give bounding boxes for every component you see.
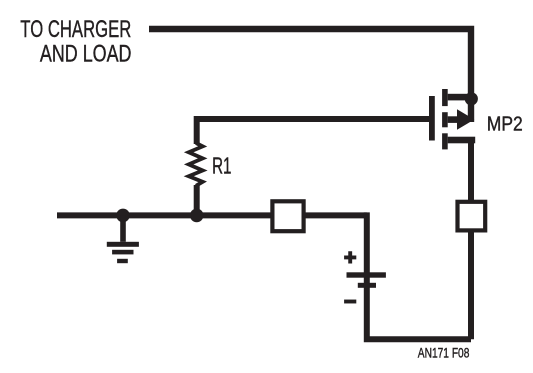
svg-text:AN171 F08: AN171 F08 (418, 345, 470, 361)
svg-text:MP2: MP2 (487, 114, 523, 136)
wire: R1 bottom lead to main rail node (194, 185, 200, 215)
battery (347, 272, 386, 288)
wire: MP2 bottom lead down to bottom rail (468, 139, 474, 339)
transistor MP2 (P-channel MOSFET) (429, 89, 475, 149)
junction dot: R1 / main rail (190, 209, 204, 223)
component box (right, in series with MP2 lead) (458, 202, 486, 231)
wire: top rail from charger label to MP2 top lead (149, 29, 471, 122)
junction dot: ground node (116, 209, 130, 223)
svg-text:AND LOAD: AND LOAD (40, 41, 132, 68)
wire: battery leads and bottom rail (367, 212, 471, 339)
resistor R1 (189, 143, 203, 186)
wire: gate lead from MP2 to R1 top (197, 119, 429, 144)
wire: main horizontal rail (57, 212, 367, 218)
label: battery plus (344, 251, 356, 263)
junction dot: MP2 body tie at top lead (465, 92, 478, 105)
svg-text:TO CHARGER: TO CHARGER (20, 16, 131, 43)
svg-text:R1: R1 (212, 153, 231, 179)
label: battery minus (344, 300, 356, 304)
ground (107, 215, 139, 263)
component box (left, in series with rail) (272, 201, 303, 231)
